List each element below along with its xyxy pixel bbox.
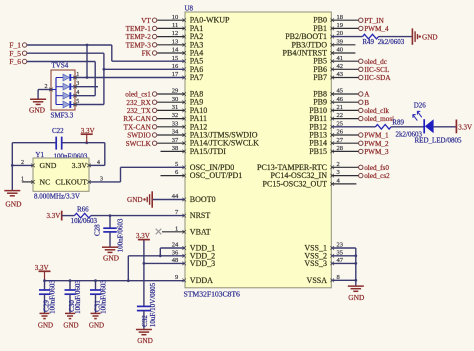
wire 3.3V rail through C22 to Y1 pin4 xyxy=(12,141,105,165)
pin 6 OSC_OUT/PD1 (left) xyxy=(175,169,242,180)
svg-text:GND: GND xyxy=(29,105,46,114)
svg-text:1: 1 xyxy=(21,176,24,182)
pin 34 PA13/JTMS/SWDIO (left) xyxy=(172,129,258,140)
svg-text:3: 3 xyxy=(76,81,79,87)
pin 22 PB11 (right) xyxy=(310,112,344,123)
svg-text:3.3V: 3.3V xyxy=(72,161,88,170)
designator R66 xyxy=(77,205,89,213)
ground (TVS4) xyxy=(29,99,46,114)
wire R89 to LED D26 xyxy=(391,126,424,128)
value label STM32F103C8T6 xyxy=(184,290,241,299)
svg-text:2k2/0603: 2k2/0603 xyxy=(378,38,405,46)
node oled_cs2 xyxy=(331,172,390,180)
wire VDD_2 to 3.3V rail xyxy=(127,256,185,282)
svg-text:VT: VT xyxy=(141,17,151,25)
node TX-CAN xyxy=(124,123,185,131)
svg-text:VSSA: VSSA xyxy=(307,276,328,285)
svg-text:OSC_OUT/PD1: OSC_OUT/PD1 xyxy=(190,171,242,180)
wire VDDA 3.3V rail xyxy=(45,279,186,282)
wire VSSA to bus xyxy=(331,279,357,282)
designator C28 xyxy=(94,224,102,236)
designator R89 xyxy=(392,118,404,126)
pin 20 PB2/BOOT1 (right) xyxy=(285,30,343,41)
value label 100nF/0603 xyxy=(54,152,88,160)
pin 16 PA6 (left) xyxy=(172,63,204,74)
capacitor C28 xyxy=(103,228,117,232)
node oled_fs0 xyxy=(331,164,389,172)
svg-text:U8: U8 xyxy=(185,5,194,13)
svg-text:BOOT0: BOOT0 xyxy=(190,195,216,204)
designator C30 xyxy=(68,300,76,312)
pin 5 OSC_IN/PD0 (left) xyxy=(175,161,234,172)
svg-text:GND: GND xyxy=(89,321,104,329)
svg-text:PWM_2: PWM_2 xyxy=(364,140,389,148)
svg-text:1: 1 xyxy=(76,72,79,78)
wire PB12 to R89 xyxy=(331,126,375,128)
svg-text:C32: C32 xyxy=(141,315,149,327)
svg-text:100nF/0603: 100nF/0603 xyxy=(74,280,82,314)
pin 37 PA14/JTCK/SWCLK (left) xyxy=(172,137,259,148)
node oled_cs1 xyxy=(125,91,185,99)
svg-text:GND: GND xyxy=(63,321,78,329)
wire BOOT0 to ground xyxy=(152,199,185,201)
node oled_mosi xyxy=(331,115,394,123)
wire PB2 to R49 xyxy=(331,36,362,38)
node FK xyxy=(142,50,185,58)
pin 35 VSS_2 (right) xyxy=(304,249,343,260)
pin VBAT no-connect stub with X xyxy=(156,229,185,235)
svg-text:100nF/0603: 100nF/0603 xyxy=(99,280,107,314)
node IIC-SCL xyxy=(331,66,389,74)
node PWM_2 xyxy=(331,140,389,148)
node A xyxy=(331,91,370,99)
pin 23 VSS_1 (right) xyxy=(304,242,343,253)
svg-text:R66: R66 xyxy=(77,205,89,213)
svg-text:F_6: F_6 xyxy=(9,57,21,66)
pin 1 VBAT (left) xyxy=(175,225,211,236)
svg-text:3.3V: 3.3V xyxy=(136,232,150,240)
wire LED to 3.3V xyxy=(434,126,457,128)
designator C22 xyxy=(52,127,64,135)
pin 44 BOOT0 (left) xyxy=(172,193,216,204)
svg-text:B: B xyxy=(364,99,369,107)
ground (Y1/C22) xyxy=(4,191,22,209)
ground (BOOT0, sideways) xyxy=(127,191,152,207)
designator D26 xyxy=(414,102,427,110)
node RX-CAN xyxy=(123,115,185,123)
Y1 pin names xyxy=(40,161,88,187)
node F_5 xyxy=(9,49,27,58)
designator C32 xyxy=(141,315,149,327)
svg-text:232_RX: 232_RX xyxy=(126,99,151,107)
svg-text:VSS_3: VSS_3 xyxy=(304,259,327,268)
svg-text:GND: GND xyxy=(40,161,57,170)
wire TVS pin2 to ground xyxy=(38,90,51,100)
node B xyxy=(331,99,369,107)
ground (C28) xyxy=(102,247,120,262)
pin 13 PA3 (left) xyxy=(172,38,204,49)
svg-text:oled_clk: oled_clk xyxy=(364,107,389,115)
node IIC-SDA xyxy=(331,74,391,82)
capacitor C32 xyxy=(137,306,151,329)
wire F_6 to TVS pin4 xyxy=(27,62,95,96)
svg-text:RX-CAN: RX-CAN xyxy=(123,115,151,123)
capacitor C30 xyxy=(65,281,76,314)
svg-text:GND: GND xyxy=(137,337,153,345)
svg-text:TEMP-2: TEMP-2 xyxy=(126,33,152,41)
ground (VSS bus) xyxy=(348,286,365,302)
wire R66 to NRST xyxy=(91,214,185,217)
wire VSS_2 to bus xyxy=(331,254,357,257)
wire stub OSC_OUT/PD1 xyxy=(161,175,186,177)
wire VSS_1 to bus xyxy=(331,248,356,286)
designator C29 xyxy=(42,300,50,312)
pin 45 PB8 (right) xyxy=(313,88,343,99)
node PWM_3 xyxy=(331,148,389,156)
pin 21 PB10 (right) xyxy=(309,104,343,115)
node TEMP-1 xyxy=(126,25,185,33)
svg-text:8.000MHz/3.3V: 8.000MHz/3.3V xyxy=(34,192,80,200)
pin 9 VDDA (left) xyxy=(175,274,213,285)
svg-text:R49: R49 xyxy=(362,38,374,46)
svg-text:SWDIO: SWDIO xyxy=(127,132,151,140)
wire VDD_1 jog to VDD_2 xyxy=(159,248,185,257)
svg-text:GND: GND xyxy=(127,196,143,204)
node PWM_4 xyxy=(331,25,389,33)
pin 33 PA12 (left) xyxy=(172,120,208,131)
pin 11 PA1 (left) xyxy=(172,22,203,33)
wire TVS pin3 stub xyxy=(75,86,98,88)
svg-text:PB7: PB7 xyxy=(313,73,327,82)
pin 42 PB6 (right) xyxy=(313,63,343,74)
pin 3 PC14-OSC32_IN (right) xyxy=(271,169,340,180)
designator C31 xyxy=(93,300,101,312)
svg-text:STM32F103C8T6: STM32F103C8T6 xyxy=(184,290,241,299)
node oled_dc xyxy=(331,58,387,66)
svg-text:PWM_1: PWM_1 xyxy=(364,132,389,140)
pin 12 PA2 (left) xyxy=(172,30,204,41)
pin 39 PB3/JTDO (right) xyxy=(291,38,343,49)
svg-text:10k/0603: 10k/0603 xyxy=(71,217,98,225)
svg-text:GND: GND xyxy=(5,200,22,209)
wire F_1 to PA5 xyxy=(27,45,185,61)
node PT_IN xyxy=(331,17,384,25)
power 3.3V (at C22) xyxy=(81,127,95,143)
designator Y1 xyxy=(35,151,44,159)
node 232_RX xyxy=(126,99,185,107)
node SWCLK xyxy=(126,140,185,148)
pin 47 VSS_3 (right) xyxy=(304,257,343,268)
svg-text:2: 2 xyxy=(21,160,24,166)
Y1 pin 4 xyxy=(87,160,100,167)
capacitor C29 xyxy=(39,281,50,314)
svg-text:PA7: PA7 xyxy=(190,73,204,82)
designator U8 xyxy=(185,5,194,13)
pin 27 PB14 (right) xyxy=(309,137,344,148)
node F_6 xyxy=(9,57,27,66)
svg-text:PA15/JTDI: PA15/JTDI xyxy=(190,147,226,156)
ground (R49, sideways) xyxy=(412,28,437,44)
pin 14 PA4 (left) xyxy=(172,47,204,58)
svg-text:5: 5 xyxy=(76,99,79,105)
ground (C30) xyxy=(63,313,78,329)
svg-text:PWM_3: PWM_3 xyxy=(364,148,389,156)
wire C28 to ground xyxy=(109,232,111,247)
svg-text:PC15-OSC32_OUT: PC15-OSC32_OUT xyxy=(263,179,328,188)
svg-text:100nF/0603: 100nF/0603 xyxy=(48,280,56,314)
Y1 pin 1 stub xyxy=(21,176,35,183)
svg-text:IIC-SCL: IIC-SCL xyxy=(364,66,389,74)
value label SMF3.3 xyxy=(51,111,74,119)
TVS4 pin number 3 xyxy=(76,81,79,87)
svg-text:oled_mosi: oled_mosi xyxy=(364,115,394,123)
svg-text:SWCLK: SWCLK xyxy=(126,140,152,148)
pin 4 PC15-OSC32_OUT (right) xyxy=(263,178,341,189)
pin 48 VDD_3 (left) xyxy=(172,257,215,268)
pin 40 PB4/JNTRST (right) xyxy=(283,47,343,58)
value label 2k2/0603 (R49) xyxy=(378,38,405,46)
resistor R66 xyxy=(74,213,91,218)
value label RED_LED/0805 xyxy=(415,136,463,144)
wire 3.3V stem down to C32 xyxy=(143,241,145,307)
svg-text:NRST: NRST xyxy=(190,211,211,220)
value label 100nF/0603 (C29) xyxy=(48,280,56,314)
wire F_5 to TVS pin5 and PA6 xyxy=(27,53,185,104)
Y1 pin 2 xyxy=(21,160,35,167)
pin 18 PB0 (right) xyxy=(313,14,343,25)
svg-text:GND: GND xyxy=(103,254,120,263)
pin 19 PB1 (right) xyxy=(313,22,343,33)
value label 10uF/10V/0805 xyxy=(149,282,157,327)
pin 28 PB15 (right) xyxy=(309,145,343,156)
node 232_TX xyxy=(127,107,185,115)
svg-text:GND: GND xyxy=(348,293,365,302)
ground (C32) xyxy=(136,330,153,346)
IC U8 STM32F103C8T6 body xyxy=(185,12,331,288)
TVS4 pin number 1 xyxy=(76,72,79,78)
svg-text:RED_LED/0805: RED_LED/0805 xyxy=(415,136,463,144)
node SWDIO xyxy=(127,132,185,140)
pin 46 PB9 (right) xyxy=(313,96,344,107)
svg-text:PWM_4: PWM_4 xyxy=(364,25,389,33)
node F_1 xyxy=(9,41,27,50)
ground (C29) xyxy=(38,313,53,329)
value label 2k2/0603 (R89) xyxy=(396,131,423,139)
svg-text:oled_cs1: oled_cs1 xyxy=(125,91,151,99)
value label 8.000MHz/3.3V xyxy=(34,192,80,200)
LED D26 xyxy=(413,111,434,133)
TVS4 pin number 4 xyxy=(76,90,79,96)
node TEMP-2 xyxy=(126,33,185,41)
svg-text:oled_dc: oled_dc xyxy=(364,58,387,66)
svg-text:VBAT: VBAT xyxy=(190,227,211,236)
wire stub PB4/JNTRST xyxy=(331,52,355,54)
wire 3.3V to R66 xyxy=(62,215,75,217)
svg-text:4: 4 xyxy=(97,160,100,166)
svg-text:Y1: Y1 xyxy=(35,151,44,159)
svg-text:232_TX: 232_TX xyxy=(127,107,152,115)
pin 15 PA5 (left) xyxy=(172,55,204,66)
node PWM_1 xyxy=(331,132,389,140)
svg-text:3.3V: 3.3V xyxy=(458,124,472,132)
power 3.3V (LED, sideways) xyxy=(456,120,472,134)
svg-text:C28: C28 xyxy=(94,224,102,236)
pin 30 PA9 (left) xyxy=(172,96,204,107)
svg-text:NC: NC xyxy=(40,178,51,187)
svg-text:D26: D26 xyxy=(414,102,427,110)
pin 10 PA0-WKUP (left) xyxy=(172,14,230,25)
svg-text:IIC-SDA: IIC-SDA xyxy=(364,74,391,82)
svg-text:3.3V: 3.3V xyxy=(81,127,95,135)
power 3.3V (above VDD_3) xyxy=(136,232,150,241)
oscillator Y1 body xyxy=(33,158,89,191)
svg-text:VDDA: VDDA xyxy=(190,276,213,285)
svg-text:9: 9 xyxy=(175,274,178,281)
TVS4 pin number 5 xyxy=(76,99,79,105)
svg-text:A: A xyxy=(364,91,370,99)
svg-text:CLKOUT: CLKOUT xyxy=(55,178,87,187)
ground (C31) xyxy=(89,313,104,329)
pin 25 PB12 (right) xyxy=(309,120,343,131)
value label 10k/0603 xyxy=(71,217,98,225)
power 3.3V (left of C29) xyxy=(35,264,51,282)
resistor R49 xyxy=(363,34,379,39)
svg-text:GND: GND xyxy=(422,34,438,42)
pin 26 PB13 (right) xyxy=(309,129,344,140)
svg-text:TEMP-1: TEMP-1 xyxy=(126,25,152,33)
pin 7 NRST (left) xyxy=(175,209,210,220)
pin 41 PB5 (right) xyxy=(313,55,343,66)
pin 29 PA8 (left) xyxy=(172,88,204,99)
svg-text:oled_fs0: oled_fs0 xyxy=(364,164,389,172)
pin 8 VSSA (right) xyxy=(307,274,340,285)
svg-text:SMF3.3: SMF3.3 xyxy=(51,111,74,119)
designator R49 xyxy=(362,38,374,46)
svg-text:TX-CAN: TX-CAN xyxy=(124,123,152,131)
svg-text:C22: C22 xyxy=(52,127,64,135)
svg-text:VDD_3: VDD_3 xyxy=(190,259,215,268)
pin 31 PA10 (left) xyxy=(172,104,208,115)
wire F_1 branch to TVS pin1 and PA7 xyxy=(75,44,185,79)
pin 38 PA15/JTDI (left) xyxy=(172,145,226,156)
svg-text:3.3V: 3.3V xyxy=(46,212,60,220)
TVS diode array TVS4 SMF3.3 xyxy=(49,70,77,110)
wire VDD_3 to 3.3V xyxy=(143,262,186,265)
wire C22 left down to ground and Y1 pin2 xyxy=(11,143,33,191)
svg-text:3: 3 xyxy=(100,176,103,182)
wire stub PC15-OSC32_OUT xyxy=(331,183,356,185)
pin 24 VDD_1 (left) xyxy=(172,242,215,253)
wire R49 to ground xyxy=(379,36,412,38)
capacitor C31 xyxy=(90,281,101,314)
value label 100nF/0603 (C30) xyxy=(74,280,82,314)
capacitor C22 xyxy=(56,137,62,150)
svg-text:R89: R89 xyxy=(392,118,404,126)
node TEMP-3 xyxy=(126,41,185,49)
svg-text:TVS4: TVS4 xyxy=(52,62,69,70)
wire NRST junction down to C28 xyxy=(109,216,111,228)
svg-text:FK: FK xyxy=(142,50,152,58)
svg-text:PB15: PB15 xyxy=(309,147,327,156)
svg-text:4: 4 xyxy=(76,90,79,96)
resistor R89 xyxy=(376,125,392,130)
pin 36 VDD_2 (left) xyxy=(172,249,215,260)
pin 2 PC13-TAMPER-RTC (right) xyxy=(257,161,340,172)
wire stub PB3/JTDO xyxy=(331,44,355,46)
svg-text:TEMP-3: TEMP-3 xyxy=(126,41,152,49)
node VT xyxy=(141,17,185,25)
TVS4 pin number 2 xyxy=(45,84,48,90)
pin 32 PA11 (left) xyxy=(172,112,207,123)
svg-text:PT_IN: PT_IN xyxy=(364,17,384,25)
svg-text:oled_cs2: oled_cs2 xyxy=(364,172,390,180)
Y1 pin 3 / wire CLKOUT to OSC_IN xyxy=(87,167,185,183)
value label 100nF/0603 (C28) xyxy=(117,218,125,252)
value label 100nF/0603 (C31) xyxy=(99,280,107,314)
pin 17 PA7 (left) xyxy=(172,71,204,82)
svg-text:GND: GND xyxy=(38,321,53,329)
power 3.3V (at R66, sideways) xyxy=(46,211,61,221)
wire VSS_3 to bus xyxy=(331,262,357,265)
designator TVS4 xyxy=(52,62,69,70)
wire stub PA15 xyxy=(161,150,186,152)
svg-text:3.3V: 3.3V xyxy=(35,264,49,272)
pin 43 PB7 (right) xyxy=(313,71,343,82)
svg-text:10uF/10V/0805: 10uF/10V/0805 xyxy=(149,282,157,327)
node oled_clk xyxy=(331,107,389,115)
